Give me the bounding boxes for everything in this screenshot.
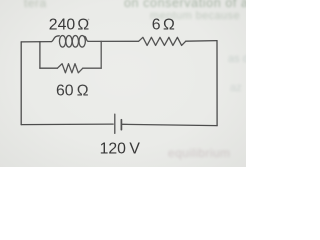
svg-text:60Ω: 60Ω xyxy=(56,82,89,99)
wire top-right segment xyxy=(186,40,217,43)
svg-text:120V: 120V xyxy=(100,140,141,157)
svg-text:6Ω: 6Ω xyxy=(152,16,175,33)
wire right side xyxy=(216,41,218,126)
wire parallel-branch right vertical xyxy=(100,41,102,68)
wire bottom-left segment xyxy=(21,123,113,126)
wire left side xyxy=(20,42,22,125)
battery cell 120 V short plate xyxy=(120,120,122,130)
wire top-middle segment xyxy=(88,40,138,42)
svg-text:240Ω: 240Ω xyxy=(49,16,90,33)
small ink dot after 240 ohm label xyxy=(88,19,90,21)
wire top-left segment xyxy=(21,41,51,43)
inductor coil 240 ohm xyxy=(51,36,88,48)
battery cell 120 V long plate xyxy=(114,114,116,133)
resistor R 6 ohm zigzag xyxy=(139,37,186,45)
faint page bleed-through (decorative) xyxy=(24,0,47,10)
resistor R 60 ohm zigzag xyxy=(57,64,82,73)
wire parallel-branch bottom right lead xyxy=(83,67,101,69)
wire parallel-branch left vertical xyxy=(39,42,41,68)
wire parallel-branch bottom left lead xyxy=(40,67,58,69)
wire bottom-right segment xyxy=(122,124,217,125)
